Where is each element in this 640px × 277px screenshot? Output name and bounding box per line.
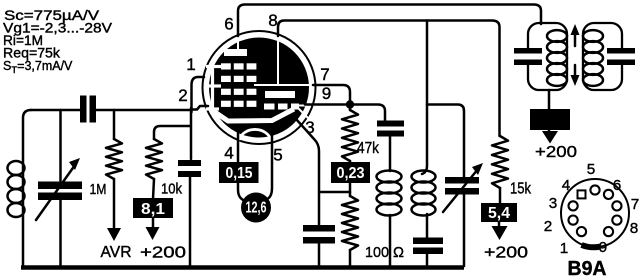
svg-text:B9A: B9A: [568, 258, 607, 277]
resistor R1 1M (AGC return): [113, 110, 116, 139]
arrow to +200: [152, 218, 155, 228]
wire: tube pin 1 hook joining grid rail: [192, 77, 205, 112]
measurement box 5,4: [481, 203, 517, 222]
svg-text:1: 1: [186, 55, 196, 74]
svg-text:6: 6: [613, 177, 622, 194]
capacitor C2 (grid decoupling to ground): [190, 108, 193, 159]
capacitor C7 (primary tuning): [524, 53, 532, 60]
svg-text:7: 7: [631, 196, 640, 213]
svg-text:0,23: 0,23: [337, 165, 365, 182]
svg-text:+200: +200: [140, 245, 186, 262]
wire: pin 8 stub and rail to right branches: [278, 21, 500, 137]
svg-text:5,4: 5,4: [488, 205, 510, 222]
variable capacitor CV1 (antenna tuning): [59, 110, 62, 181]
svg-text:8: 8: [268, 11, 278, 30]
svg-text:9: 9: [322, 84, 332, 103]
svg-text:10k: 10k: [161, 181, 182, 198]
arrow to AVR: [107, 228, 121, 241]
svg-text:Ω: Ω: [393, 244, 404, 261]
tube V1 left grid support bracket: [211, 68, 214, 112]
wire: pin 7 to junction: [313, 85, 350, 104]
pin 6 hole (B9A): [604, 190, 613, 199]
inductor L3 (oscillator coil): [389, 137, 392, 172]
capacitor C4 (oscillator tank cap): [377, 121, 404, 127]
inductor L1 (antenna coil on left vertical): [8, 161, 25, 175]
svg-text:15k: 15k: [510, 181, 532, 198]
B9A socket outline: [561, 179, 629, 247]
inductor L2 (oscillator feedback coil): [412, 171, 436, 183]
wire: ground bus (thick bottom rail): [21, 265, 464, 270]
node junction dot (pins 7/9): [346, 100, 354, 108]
tube V1 internal lead to pin 6: [237, 38, 239, 50]
svg-text:5: 5: [273, 146, 283, 165]
svg-text:1M: 1M: [90, 181, 107, 198]
pin 5 hole (B9A): [590, 185, 599, 194]
pin 7 hole (B9A): [612, 201, 621, 210]
capacitor C6 (below L2): [413, 238, 443, 245]
svg-text:2: 2: [544, 218, 553, 235]
tube V1 right grid dashes: [264, 104, 275, 110]
svg-text:8: 8: [630, 220, 639, 237]
coupling adjust arrow down: [574, 65, 577, 77]
tube V1 envelope (outer circle): [203, 31, 316, 144]
heater voltage circle 12,6: [241, 193, 271, 223]
capacitor C5 (cathode bypass): [303, 225, 335, 232]
inductor T1 secondary coil: [583, 30, 603, 42]
resistor R3 47k: [349, 104, 352, 110]
tube V1 heater arc: [239, 129, 271, 140]
capacitor C8 (secondary tuning): [618, 53, 626, 60]
tube V1 cathode chevron: [212, 109, 294, 121]
svg-text:+200: +200: [535, 144, 577, 161]
variable capacitor CV2 (oscillator tuning): [445, 177, 479, 184]
svg-text:12,6: 12,6: [246, 200, 267, 217]
wire: left antenna vertical with rounded corners: [23, 110, 31, 266]
pin 1 hole (B9A): [577, 227, 586, 236]
wire: grid-1 rail from antenna circuit to tube pin 2: [31, 109, 80, 112]
pin 3 hole (B9A): [569, 201, 578, 210]
tube V1 internal lead to pin 7: [254, 84, 314, 86]
tube V1 internal lead from pin 8: [277, 38, 279, 85]
wire: pin 9 rail to oscillator tank: [305, 105, 385, 122]
svg-text:3: 3: [305, 118, 315, 137]
pin 9 hole (B9A): [604, 227, 613, 236]
svg-text:2: 2: [178, 86, 188, 105]
wire: pin 2 stub jog into tube: [191, 106, 208, 110]
arrow to +200 (right): [498, 222, 501, 227]
tube V1 triode anode bar: [224, 49, 247, 56]
measurement box 8,1: [133, 198, 173, 218]
wire: pin 6 stub and top rail to IF transformer: [238, 5, 541, 37]
wire: vertical from pin-8 rail down to oscillator coil L3: [422, 21, 427, 175]
wire: transformer primary to +200: [548, 90, 551, 131]
svg-text:0,15: 0,15: [226, 165, 253, 182]
coupling adjust arrow up: [574, 33, 577, 46]
wire: pin 3 stub: [296, 119, 319, 225]
IF transformer T1 primary frame: [528, 23, 567, 90]
pin 8 hole (B9A): [612, 216, 621, 225]
svg-text:8,1: 8,1: [141, 201, 165, 218]
wire: pin-3 tee to cathode resistor chain: [319, 191, 350, 194]
svg-text:4: 4: [224, 144, 234, 163]
wire: pin 5 stub: [268, 133, 272, 199]
tube V1 heptode anode bar: [265, 91, 295, 98]
svg-text:7: 7: [320, 65, 330, 84]
tube V1 grid dash matrix: [221, 63, 231, 69]
arrow to +200 (transformer): [542, 131, 558, 144]
tube V1 internal lead to pin 9: [296, 105, 306, 107]
wire: pin 4 stub: [238, 131, 243, 200]
IF transformer T1 secondary frame: [583, 23, 622, 90]
tube V1 internal lead to pin 3: [298, 108, 310, 120]
B9A index mark (thick bottom arc): [582, 245, 601, 247]
svg-text:1: 1: [560, 240, 569, 257]
svg-text:AVR: AVR: [101, 244, 132, 261]
svg-text:+200: +200: [484, 245, 528, 262]
capacitor C1 (grid coupling, on rail): [80, 96, 87, 123]
measurement box 0,23: [331, 162, 370, 183]
svg-text:6: 6: [224, 15, 234, 34]
svg-text:5: 5: [587, 161, 596, 178]
svg-text:9: 9: [599, 239, 608, 256]
resistor R4 100 ohm: [349, 183, 352, 196]
resistor R2 10k (to +200): [154, 126, 190, 139]
resistor R5 15k: [492, 136, 508, 188]
svg-text:47k: 47k: [357, 140, 380, 157]
pin 2 hole (B9A): [569, 216, 578, 225]
svg-text:3: 3: [549, 195, 558, 212]
tube V1 inner body (black disc): [209, 38, 309, 138]
wire: tee to variable capacitor CV2: [427, 105, 464, 178]
svg-text:100: 100: [365, 244, 389, 261]
screened dropper block (solid): [530, 109, 570, 130]
svg-text:4: 4: [562, 177, 571, 194]
inductor T1 primary coil: [547, 30, 567, 42]
measurement box 0,15: [219, 162, 259, 183]
pin 4 hole (B9A): [578, 190, 586, 198]
